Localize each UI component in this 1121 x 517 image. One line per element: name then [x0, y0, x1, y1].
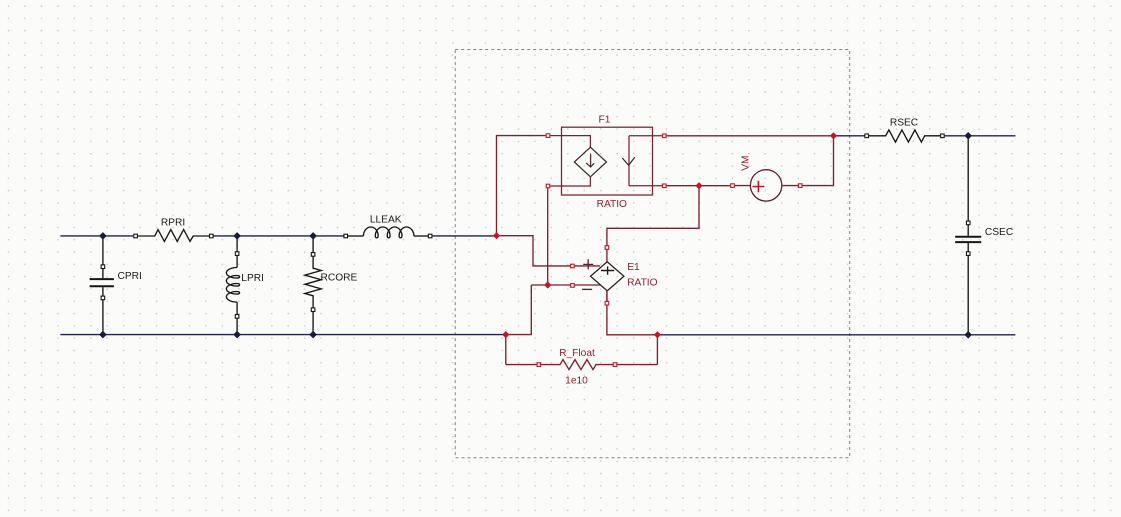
node primary bottom junction at CPRI — [99, 331, 107, 339]
wire red: F1 right-bottom to VM — [667, 185, 731, 187]
node secondary top junction at CSEC — [964, 132, 972, 140]
node primary bottom junction at LPRI — [233, 331, 241, 339]
wire primary bottom rail — [60, 334, 505, 336]
svg-text:RPRI: RPRI — [161, 218, 185, 229]
svg-text:E1: E1 — [627, 262, 640, 273]
svg-text:1e10: 1e10 — [565, 376, 588, 387]
node red junction at primary top / F1 input — [493, 232, 500, 239]
inductor LLEAK — [344, 227, 432, 238]
svg-text:RCORE: RCORE — [321, 273, 358, 284]
inductor LPRI — [226, 236, 239, 335]
wire red: node A riser to F1 left-top — [497, 136, 546, 236]
resistor RSEC — [865, 130, 944, 142]
svg-text:RATIO: RATIO — [627, 277, 657, 288]
svg-text:LLEAK: LLEAK — [370, 215, 402, 226]
svg-text:VM: VM — [741, 156, 752, 171]
node primary top junction at LPRI — [233, 232, 241, 240]
voltmeter VM — [731, 170, 802, 201]
subcircuit dashed boundary box — [455, 50, 850, 458]
capacitor CPRI — [90, 236, 114, 335]
svg-text:RSEC: RSEC — [890, 118, 918, 129]
wire red: F1 left-bottom drop to minus node — [547, 186, 549, 285]
node primary top junction at CPRI — [99, 232, 107, 240]
wire red: F1 right-top to secondary junction — [667, 135, 834, 137]
wire secondary top rail — [834, 135, 1016, 137]
current source F1 — [546, 127, 666, 195]
wire red: R_Float right riser — [656, 335, 658, 365]
capacitor CSEC — [955, 136, 981, 335]
svg-text:CSEC: CSEC — [985, 227, 1013, 238]
svg-text:RATIO: RATIO — [597, 199, 627, 210]
node red junction at minus control — [544, 281, 551, 288]
wire red: R_Float left riser — [505, 335, 507, 365]
wire red: minus control branch — [506, 285, 600, 335]
node red junction at VM left — [695, 182, 702, 189]
wire red: E1 bottom to secondary bottom — [607, 292, 658, 335]
resistor R_Float — [506, 360, 658, 370]
controlled voltage source E1 — [571, 246, 624, 305]
svg-text:F1: F1 — [599, 114, 611, 125]
svg-text:LPRI: LPRI — [241, 273, 264, 284]
wire red: node A to E1 plus control — [497, 236, 601, 266]
node red junction at secondary bottom / R_Float right — [654, 331, 661, 338]
svg-text:R_Float: R_Float — [559, 348, 595, 359]
svg-text:CPRI: CPRI — [118, 271, 142, 282]
resistor RCORE — [305, 236, 321, 335]
wire red: VM right to secondary top — [803, 136, 834, 186]
resistor RPRI — [134, 230, 213, 242]
node primary top junction at RCORE — [309, 232, 317, 240]
wire primary top rail — [60, 235, 496, 237]
wire red: E1 top to VM node — [607, 186, 699, 248]
node primary bottom junction at RCORE — [309, 331, 317, 339]
node secondary bottom junction at CSEC — [964, 331, 972, 339]
wire secondary bottom rail — [657, 334, 1015, 336]
node red junction at secondary top — [830, 132, 837, 139]
node red junction at primary bottom / R_Float left — [502, 331, 509, 338]
